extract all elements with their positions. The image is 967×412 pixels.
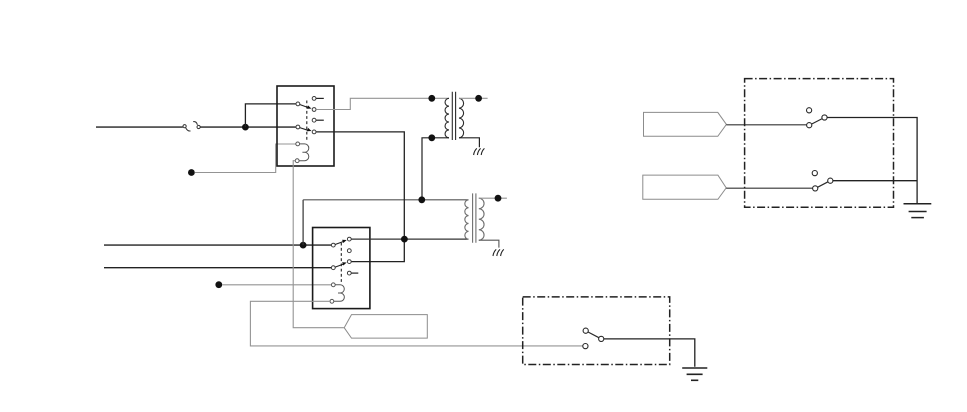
wire	[479, 197, 507, 199]
wire	[459, 97, 488, 99]
transformer T2 primary	[465, 200, 469, 239]
wire	[726, 187, 812, 189]
relay K2 NC contact 2	[347, 271, 358, 275]
wire	[245, 104, 296, 127]
relay K2 NO contact 1	[347, 237, 351, 241]
earth ground	[682, 368, 707, 380]
node	[495, 195, 502, 202]
relay K2 pole 1	[331, 240, 346, 247]
connector flag F1	[644, 112, 727, 136]
wire	[422, 138, 449, 200]
switch S1	[807, 108, 828, 128]
relay K2 NO contact 2	[347, 260, 351, 264]
relay K2 coil	[330, 283, 344, 303]
node	[428, 95, 435, 102]
switch S2	[812, 171, 833, 191]
chassis ground	[493, 249, 504, 256]
node	[188, 169, 195, 176]
earth ground	[904, 204, 932, 218]
relay K1 pole 2	[296, 125, 312, 131]
wire	[316, 98, 449, 109]
transformer T1 core	[452, 92, 455, 140]
wire	[195, 144, 296, 173]
relay K1 box	[277, 86, 334, 166]
wire	[250, 301, 582, 346]
node	[401, 236, 408, 243]
wire	[479, 240, 499, 247]
node	[215, 281, 222, 288]
wire	[827, 118, 917, 204]
connector break	[183, 122, 200, 131]
mechanical link K2	[340, 243, 342, 282]
relay K2 pole 2	[331, 262, 346, 269]
connector flag F3	[344, 315, 427, 339]
relay K1 coil	[295, 142, 309, 163]
chassis ground	[474, 148, 485, 155]
relay K1 NO contact 2	[312, 130, 316, 134]
enclosure S3 (dash-dot)	[523, 297, 670, 365]
wire	[833, 180, 917, 182]
transformer T2 secondary	[479, 198, 484, 240]
wire	[293, 161, 344, 328]
relay K1 NC contact 1	[312, 97, 324, 101]
transformer T1 primary	[445, 98, 449, 138]
node	[300, 242, 307, 249]
enclosure S1/S2 (dash-dot)	[745, 79, 894, 208]
relay K1 NO contact 1	[312, 108, 316, 112]
transformer T1 secondary	[459, 98, 464, 138]
mechanical link K1	[306, 101, 308, 142]
relay K2 spare contact	[347, 249, 351, 253]
transformer T2 core	[473, 193, 476, 242]
relay K1 NC contact 2	[312, 118, 324, 122]
wire	[302, 200, 304, 245]
wire	[303, 199, 468, 201]
relay K1 pole 1	[296, 102, 312, 109]
wire	[222, 284, 331, 286]
wire	[104, 267, 331, 269]
node	[242, 124, 249, 131]
node	[418, 196, 425, 203]
wire	[200, 126, 296, 128]
node	[428, 134, 435, 141]
wire	[459, 138, 479, 148]
connector flag F2	[643, 175, 726, 199]
wire	[726, 124, 806, 126]
node	[475, 95, 482, 102]
wire	[96, 126, 183, 128]
wire	[316, 132, 404, 262]
wire	[104, 244, 331, 246]
switch S3	[583, 328, 604, 349]
wire	[351, 238, 468, 240]
relay K2 box	[313, 228, 370, 309]
wire	[604, 339, 695, 367]
